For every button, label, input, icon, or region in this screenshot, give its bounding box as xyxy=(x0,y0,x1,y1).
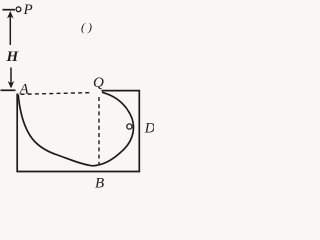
svg-text:( ): ( ) xyxy=(81,20,92,34)
svg-text:H: H xyxy=(6,49,20,65)
svg-text:B: B xyxy=(95,176,104,191)
svg-text:A: A xyxy=(19,82,30,98)
svg-text:Q: Q xyxy=(93,75,104,91)
svg-text:P: P xyxy=(23,2,33,18)
svg-text:D: D xyxy=(144,121,154,137)
